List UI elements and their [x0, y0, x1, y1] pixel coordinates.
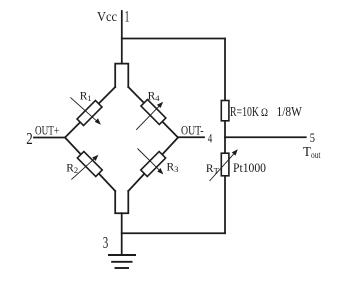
resistor R1 (top-left arm, strain gauge) [70, 97, 102, 125]
svg-text:R=10KΩ1/8W: R=10KΩ1/8W [230, 104, 302, 119]
wire ground stem (node 3) [121, 213, 123, 255]
wire bridge diagonal bottom-right [128, 138, 178, 192]
svg-text:out: out [311, 151, 321, 161]
svg-text:4: 4 [208, 130, 213, 145]
resistor RT body (Pt1000) [210, 149, 238, 181]
wire bridge diagonal bottom-left [65, 138, 115, 192]
bridge top terminal block [115, 64, 128, 87]
svg-text:R2: R2 [66, 162, 78, 175]
wire bridge diagonal top-left [65, 87, 115, 138]
resistor R4 (top-right arm, strain gauge) [136, 100, 166, 130]
bridge bottom terminal block [115, 191, 128, 213]
wire top horizontal from node 1 to right branch [122, 38, 225, 40]
resistor R (10K) body [221, 101, 229, 121]
wire bridge diagonal top-right [128, 87, 178, 138]
svg-text:R1: R1 [80, 91, 92, 104]
wire right branch lower vertical [224, 176, 226, 233]
wire Vcc vertical drop (node 1) [121, 11, 123, 64]
svg-text:2: 2 [26, 129, 33, 148]
svg-text:1: 1 [125, 9, 130, 26]
svg-text:5: 5 [310, 130, 315, 145]
wire right branch upper vertical [224, 39, 226, 101]
svg-text:R3: R3 [167, 161, 179, 174]
resistor R3 (bottom-right arm, strain gauge) [138, 149, 166, 177]
svg-text:R4: R4 [148, 91, 161, 104]
svg-text:Vcc: Vcc [97, 9, 117, 24]
wire right branch between R and node 5 junction [224, 121, 226, 153]
svg-text:OUT+: OUT+ [35, 122, 59, 137]
svg-text:RT: RT [206, 163, 220, 176]
wire OUT- stub to label 4 [178, 136, 204, 138]
wire bottom horizontal connector [122, 232, 225, 234]
ground [108, 255, 136, 268]
svg-text:OUT-: OUT- [181, 122, 204, 137]
wire horizontal to terminal 5 [225, 136, 306, 138]
svg-text:3: 3 [103, 233, 109, 252]
svg-text:Pt1000: Pt1000 [233, 160, 266, 175]
resistor R2 (bottom-left arm, strain gauge) [71, 152, 102, 180]
wire left terminal 2 to bridge [34, 137, 65, 139]
